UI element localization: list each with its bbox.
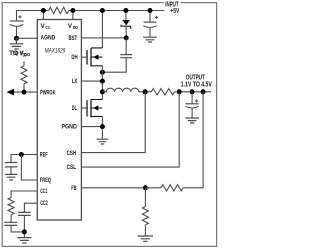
resistor: current sense: [151, 89, 174, 95]
junction: VDD / rail: [70, 8, 75, 13]
svg-text:BST: BST: [69, 35, 78, 42]
ground: AGND: [10, 38, 24, 49]
transistor Q2 low-side NFET: [81, 99, 102, 117]
svg-text:LX: LX: [72, 78, 78, 85]
wire: CSL sense: [81, 92, 179, 167]
svg-text:1.1V TO 4.5V: 1.1V TO 4.5V: [181, 81, 212, 88]
svg-text:DL: DL: [72, 105, 77, 112]
capacitor: input (polarized): [143, 11, 158, 38]
svg-text:TO V: TO V: [13, 51, 24, 58]
svg-text:DH: DH: [71, 54, 78, 61]
junction: BST / diode / boot cap: [124, 35, 129, 40]
wire: CC2 lead: [24, 203, 37, 212]
net label INPUT +5V: [164, 0, 181, 7]
junction: boot cap / LX vertical: [100, 70, 105, 75]
diode D1 Schottky (BST): [121, 11, 132, 38]
resistor R2 feedback lower: [142, 188, 148, 236]
svg-text:MAX1629: MAX1629: [45, 48, 66, 55]
svg-text:PGND: PGND: [62, 124, 78, 131]
junction: rail / diode anode: [123, 8, 128, 13]
svg-text:CSH: CSH: [67, 150, 77, 157]
wire: CC1 lead: [11, 191, 37, 198]
junction: AGND node: [14, 36, 19, 41]
wire: VDD pin stub: [72, 11, 74, 20]
junction: LX pin / node: [100, 79, 105, 84]
svg-text:AGND: AGND: [41, 34, 56, 41]
capacitor: CC1 compensation: [4, 215, 24, 232]
ground: CC network: [17, 238, 31, 243]
junction: output cap: [190, 89, 195, 94]
wire: input +5V rail: [17, 11, 165, 22]
junction: LX / inductor: [100, 89, 105, 94]
svg-text:DD: DD: [73, 25, 79, 30]
svg-text:CC2: CC2: [40, 200, 48, 207]
svg-text:DD: DD: [23, 52, 27, 57]
wire: +5V to Q1 drain: [101, 11, 103, 48]
ground: feedback divider: [138, 236, 153, 241]
junction: REF node: [19, 152, 24, 157]
ground: REF cap: [5, 174, 17, 180]
wire: PGND pin: [81, 126, 102, 128]
junction: VCC / rail: [41, 8, 46, 13]
junction: PGND node: [100, 124, 105, 129]
resistor: CC1 compensation: [8, 198, 14, 215]
junction: CSL / output: [177, 89, 182, 94]
svg-text:CC1: CC1: [40, 188, 48, 195]
ground: input cap: [143, 37, 157, 42]
ground: output cap: [185, 118, 199, 123]
wire: CSH sense: [81, 92, 145, 153]
svg-text:FREQ: FREQ: [40, 177, 51, 184]
capacitor: VCC bypass (polarized, top-left): [10, 15, 24, 38]
wire: AGND to IC: [17, 37, 38, 39]
svg-text:CC: CC: [45, 25, 51, 30]
resistor: VCC filter (top): [49, 7, 69, 13]
wire: VCC pin stub: [42, 11, 44, 20]
arrow: PWROK signal out: [7, 89, 14, 96]
capacitor: bootstrap: [102, 38, 132, 72]
wire: FB node to R1: [145, 92, 203, 188]
resistor: PWROK pull-up: [21, 61, 27, 92]
junction: output / feedback: [201, 89, 206, 94]
svg-text:OUTPUT: OUTPUT: [186, 74, 205, 81]
junction: FB node: [143, 185, 148, 190]
border frame: [2, 3, 216, 247]
svg-text:+5V: +5V: [170, 8, 179, 15]
wire: output rail: [145, 91, 211, 93]
wire: Q2 source to PGND ground: [101, 116, 103, 139]
ground: power ground: [97, 139, 109, 144]
resistor R1 feedback upper: [161, 185, 183, 191]
capacitor: REF bypass: [5, 163, 17, 175]
junction: inductor / CSH: [143, 89, 148, 94]
capacitor: output (polarized): [185, 92, 198, 118]
IC U1 MAX1629 body: [37, 20, 81, 221]
wire: BST to bootstrap node: [81, 37, 126, 39]
svg-text:PWROK: PWROK: [40, 90, 56, 97]
svg-text:CSL: CSL: [67, 164, 77, 171]
junction: CC network / ground: [22, 229, 27, 234]
capacitor: CC2 compensation: [18, 212, 31, 237]
wire: REF to bypass cap: [11, 155, 37, 163]
wire: FB pin: [81, 187, 145, 189]
junction: rail / input cap: [148, 8, 153, 13]
junction: rail / Q1 drain feed: [100, 8, 105, 13]
svg-text:REF: REF: [40, 151, 48, 158]
junction: PWROK node: [22, 90, 27, 95]
wire: REF to FREQ: [21, 155, 37, 181]
transistor Q1 high-side NFET: [81, 48, 102, 67]
inductor L1: [102, 88, 145, 92]
wire: PWROK output: [14, 91, 38, 93]
svg-text:FB: FB: [71, 185, 77, 192]
wire: LX node vertical: [101, 66, 103, 100]
wire: LX pin: [81, 80, 102, 82]
